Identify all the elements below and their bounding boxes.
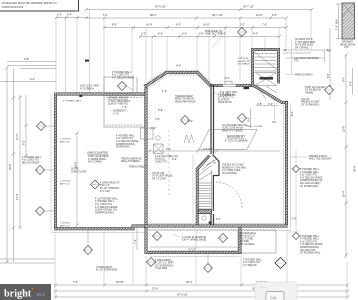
stoop strip walls	[146, 228, 240, 253]
svg-text:7'-2": 7'-2"	[133, 239, 137, 244]
svg-text:VENT SECTION: VENT SECTION	[205, 34, 222, 36]
svg-text:1'-4": 1'-4"	[162, 89, 167, 93]
areaway bump top-right	[238, 50, 279, 102]
svg-text:34'-6": 34'-6"	[74, 161, 78, 168]
svg-text:8' POURED WALL: 8' POURED WALL	[300, 235, 320, 238]
svg-text:28'-7 1/2": 28'-7 1/2"	[212, 13, 223, 17]
exterior wall right	[285, 102, 288, 228]
svg-text:6'-2": 6'-2"	[22, 140, 26, 145]
left wing dimension lines	[0, 57, 56, 82]
svg-text:TO U/S DECK: TO U/S DECK	[240, 244, 255, 246]
bottom-right watermark box	[255, 282, 297, 300]
svg-text:ANTI CLK: ANTI CLK	[60, 140, 70, 143]
svg-text:4'x1' CONC FTG: 4'x1' CONC FTG	[112, 75, 129, 77]
svg-text:3'x1' CONC FTG: 3'x1' CONC FTG	[300, 175, 317, 177]
svg-text:+ --: + --	[261, 285, 266, 289]
svg-text:4' POURED WALL: 4' POURED WALL	[300, 238, 320, 241]
svg-text:CONC SLAB W/ 6x6: CONC SLAB W/ 6x6	[222, 127, 244, 130]
svg-text:32'-8": 32'-8"	[8, 163, 12, 170]
svg-text:W/ 1/2" EXPANSION: W/ 1/2" EXPANSION	[96, 269, 118, 272]
crawl space vent bump	[104, 77, 133, 94]
svg-text:4' POURED WALL: 4' POURED WALL	[95, 200, 115, 203]
svg-text:1'-6" MIN: 1'-6" MIN	[335, 19, 339, 30]
crawl space room	[104, 96, 145, 128]
svg-text:58'-4": 58'-4"	[150, 13, 157, 17]
left bars note	[96, 266, 118, 272]
svg-text:7'-6 3/4": 7'-6 3/4"	[203, 147, 213, 151]
svg-text:2-0: 2-0	[272, 120, 276, 124]
svg-text:7'-9": 7'-9"	[73, 280, 78, 284]
svg-text:87'-9 1/2": 87'-9 1/2"	[177, 292, 188, 296]
svg-text:BELOW GRADE: BELOW GRADE	[22, 161, 40, 164]
svg-text:3'-6": 3'-6"	[216, 217, 221, 221]
top extension lines	[56, 10, 311, 94]
stair treads	[198, 159, 218, 211]
stair text	[213, 163, 246, 175]
svg-text:2'-0": 2'-0"	[292, 217, 297, 221]
svg-text:FTG: FTG	[294, 61, 299, 63]
post block	[209, 222, 212, 225]
svg-text:12'-4": 12'-4"	[15, 193, 19, 200]
svg-text:4' POURED WALL: 4' POURED WALL	[22, 156, 42, 159]
svg-text:10 A POURED 3000 PSI: 10 A POURED 3000 PSI	[222, 124, 247, 127]
svg-text:FTG 1'-8": FTG 1'-8"	[100, 185, 110, 187]
svg-text:10'-2": 10'-2"	[15, 133, 19, 140]
svg-text:AT SCREEN: AT SCREEN	[80, 87, 94, 90]
svg-text:2' CONC SLAB ABOVE: 2' CONC SLAB ABOVE	[182, 236, 207, 239]
svg-text:3'-0" LAP: 3'-0" LAP	[100, 190, 110, 193]
svg-text:bright: bright	[4, 288, 32, 299]
exterior wall left	[54, 93, 57, 231]
svg-text:TO 4% BELOW: TO 4% BELOW	[305, 90, 322, 92]
svg-text:TREATED BEAM: TREATED BEAM	[175, 95, 193, 98]
diamond leaders	[45, 86, 209, 264]
svg-text:GRADE: GRADE	[305, 91, 314, 94]
svg-text:6'-5": 6'-5"	[272, 13, 277, 17]
svg-text:CLEAN GRAVEL FILL: CLEAN GRAVEL FILL	[95, 209, 118, 212]
svg-text:NOTED AND MUST BE VERIFIED: NOTED AND MUST BE VERIFIED PRIOR TO	[2, 1, 57, 5]
svg-text:W/ 1/2" STRMONT: W/ 1/2" STRMONT	[100, 188, 120, 190]
svg-text:7'-0": 7'-0"	[262, 22, 267, 26]
exterior wall bottom-left	[54, 226, 147, 229]
svg-text:STMT FILL: STMT FILL	[238, 58, 250, 60]
svg-text:8' POURED WALL: 8' POURED WALL	[300, 168, 320, 171]
svg-text:9'-8": 9'-8"	[24, 57, 29, 61]
window opening top wall	[220, 76, 249, 97]
strip slab note	[173, 234, 207, 242]
svg-text:2'-2": 2'-2"	[141, 31, 146, 35]
text treated beam	[175, 95, 196, 104]
svg-text:3/4" GRAVEL: 3/4" GRAVEL	[295, 46, 310, 49]
svg-text:4'-0": 4'-0"	[155, 117, 160, 121]
svg-text:2'-0": 2'-0"	[57, 12, 62, 16]
bottom notes	[155, 258, 263, 270]
top dimension lines	[56, 4, 311, 36]
svg-text:CONC FTG: CONC FTG	[155, 161, 167, 163]
under stair dashed arc	[216, 182, 242, 208]
svg-text:3'-2": 3'-2"	[240, 22, 245, 26]
svg-text:20'-4": 20'-4"	[342, 190, 346, 197]
svg-text:MLS: MLS	[37, 292, 46, 297]
svg-text:6'-0": 6'-0"	[176, 22, 181, 26]
svg-text:8'-0": 8'-0"	[342, 77, 346, 82]
svg-text:3'-6" WIDE STAIR: 3'-6" WIDE STAIR	[222, 169, 241, 172]
bay window wall	[145, 73, 253, 88]
svg-text:1/2" GYP BD: 1/2" GYP BD	[240, 238, 254, 240]
svg-text:4' POURED WALL: 4' POURED WALL	[116, 134, 136, 137]
svg-text:9'-0": 9'-0"	[247, 117, 251, 122]
svg-text:4" SOIL TREATMENT: 4" SOIL TREATMENT	[108, 100, 131, 103]
svg-text:4" PVC PERF PIPE: 4" PVC PERF PIPE	[295, 42, 316, 44]
svg-text:4' 1/2 POURED WALL: 4' 1/2 POURED WALL	[95, 197, 119, 200]
svg-text:R-13 BATT: R-13 BATT	[218, 98, 230, 101]
text 2x4 wall	[214, 91, 235, 104]
chamfer wall top-right	[251, 84, 288, 103]
footing lines	[51, 94, 291, 285]
svg-text:4' BARS REQ'D AT: 4' BARS REQ'D AT	[100, 181, 120, 184]
svg-text:3'-0": 3'-0"	[268, 102, 273, 106]
svg-text:30'-3": 30'-3"	[186, 280, 193, 284]
svg-text:DAMPPROOFING: DAMPPROOFING	[116, 143, 135, 146]
svg-text:4'-0" BELOW GRADE: 4'-0" BELOW GRADE	[112, 76, 135, 79]
svg-text:DAMPPROOFING: DAMPPROOFING	[300, 246, 319, 249]
diamond inner marks	[37, 32, 332, 268]
svg-text:3'x1' CONC FTG: 3'x1' CONC FTG	[300, 241, 317, 243]
svg-text:7'-4": 7'-4"	[122, 105, 127, 109]
svg-text:AT 10" O.C. VERT: AT 10" O.C. VERT	[155, 262, 174, 265]
svg-text:JT EA SIDE: JT EA SIDE	[155, 267, 168, 270]
svg-text:AREAWAY: AREAWAY	[342, 41, 354, 44]
svg-text:INSULATION: INSULATION	[218, 101, 232, 104]
svg-text:4" CONC SLAB/MESH: 4" CONC SLAB/MESH	[225, 140, 249, 143]
stair left wall	[196, 168, 199, 225]
svg-text:15'-10": 15'-10"	[116, 280, 124, 284]
text block left margin	[22, 156, 42, 165]
bright MLS logo	[0, 284, 51, 300]
svg-text:PREMOLD JOINT: PREMOLD JOINT	[301, 102, 320, 104]
text poured slab	[222, 124, 247, 133]
beam line	[149, 150, 280, 152]
left vertical dimension lines	[0, 67, 55, 264]
top-right detail	[335, 3, 357, 49]
svg-text:W/ FILTER SOCK: W/ FILTER SOCK	[295, 45, 314, 47]
svg-text:6'-2": 6'-2"	[172, 157, 177, 161]
svg-text:TRENCH REQ'T: TRENCH REQ'T	[129, 166, 147, 168]
svg-text:WALL TILE SEALANT: WALL TILE SEALANT	[309, 158, 332, 161]
svg-text:4'-0" BELOW GRADE: 4'-0" BELOW GRADE	[300, 176, 323, 179]
basement label parallelogram	[199, 130, 257, 150]
svg-text:DRAIN DETAIL: DRAIN DETAIL	[340, 43, 356, 46]
svg-text:NO BARS PVT'D: NO BARS PVT'D	[295, 38, 313, 41]
text block poured wall mid-left	[116, 134, 139, 148]
svg-text:SLOPE: SLOPE	[71, 169, 79, 171]
svg-text:CONC FLOOR: CONC FLOOR	[71, 171, 87, 173]
svg-text:RISE SHEET (R): RISE SHEET (R)	[205, 31, 223, 33]
svg-text:4' POURED WALL: 4' POURED WALL	[63, 100, 82, 103]
chamfer drop line	[274, 103, 276, 120]
svg-text:TREADS AT 10" MIN: TREADS AT 10" MIN	[222, 164, 244, 167]
svg-text:4' POURED WALL: 4' POURED WALL	[112, 71, 132, 74]
svg-text:8'-0": 8'-0"	[188, 119, 193, 123]
svg-text:DAMPPROOFING W/: DAMPPROOFING W/	[300, 179, 323, 182]
svg-text:PREMOLD SPLIT: PREMOLD SPLIT	[309, 156, 328, 158]
footing pad at wall end	[141, 128, 154, 139]
text column footing	[155, 155, 179, 164]
svg-text:3'x1' CONC FTG: 3'x1' CONC FTG	[116, 138, 133, 140]
svg-text:REQD PER MANUF: REQD PER MANUF	[175, 100, 196, 103]
svg-text:CAL: CAL	[270, 296, 277, 300]
svg-text:4'-6": 4'-6"	[349, 81, 353, 86]
svg-text:(ON 4" GRAVEL BASE): (ON 4" GRAVEL BASE)	[182, 239, 206, 242]
svg-text:8'-0": 8'-0"	[326, 73, 330, 78]
bottom dimension lines	[54, 231, 349, 299]
svg-text:OF PLUMB WALL: OF PLUMB WALL	[300, 185, 319, 188]
svg-text:2'x1' CONC STRINGER: 2'x1' CONC STRINGER	[294, 58, 319, 60]
svg-text:2x4 @ 16 O.C.: 2x4 @ 16 O.C.	[240, 236, 256, 238]
svg-text:LOCKER WALL: LOCKER WALL	[240, 232, 257, 235]
steel column symbol	[154, 136, 164, 154]
svg-text:6'-2": 6'-2"	[30, 77, 35, 81]
svg-text:EA SIDE: EA SIDE	[240, 240, 249, 243]
svg-text:6'-0": 6'-0"	[182, 31, 187, 35]
svg-text:5'-8": 5'-8"	[158, 108, 163, 112]
svg-text:36'-4": 36'-4"	[353, 165, 357, 172]
svg-text:2'-0": 2'-0"	[225, 76, 230, 80]
svg-text:W/ HANDRAIL: W/ HANDRAIL	[222, 172, 238, 175]
svg-text:ANTI CLK: ANTI CLK	[60, 224, 70, 227]
svg-text:WWM O 4" GRAVEL: WWM O 4" GRAVEL	[222, 129, 244, 132]
svg-text:34'-7 1/2": 34'-7 1/2"	[243, 4, 254, 8]
svg-text:LOG AT: LOG AT	[301, 98, 310, 101]
svg-text:12'-6": 12'-6"	[342, 125, 346, 132]
svg-text:CONSTRUCTION.: CONSTRUCTION.	[2, 5, 25, 9]
svg-text:4'-0" BELOW GRADE: 4'-0" BELOW GRADE	[300, 243, 323, 246]
svg-text:9'-0": 9'-0"	[166, 147, 171, 151]
svg-text:2x4 @ 16" O.C.: 2x4 @ 16" O.C.	[218, 97, 234, 99]
svg-text:8'-0": 8'-0"	[290, 111, 294, 116]
svg-text:LIN OF GIR: LIN OF GIR	[152, 173, 164, 175]
svg-text:STEEL COLUMN: STEEL COLUMN	[246, 126, 263, 128]
svg-text:16'-8": 16'-8"	[203, 22, 210, 26]
svg-text:BASEMENT: BASEMENT	[227, 134, 245, 138]
svg-text:STMT FILL AS REQ: STMT FILL AS REQ	[305, 86, 326, 89]
svg-text:9'-6": 9'-6"	[158, 31, 163, 35]
svg-text:4" PERIM DRAIN: 4" PERIM DRAIN	[88, 158, 106, 161]
unexcavated corner note block	[100, 181, 120, 192]
svg-text:1 1/2 ROD: 1 1/2 ROD	[60, 223, 71, 225]
bay outer footing line	[143, 70, 213, 85]
small dark tick label	[85, 60, 89, 62]
svg-text:4'-0" BELOW GRADE: 4'-0" BELOW GRADE	[116, 140, 139, 143]
bay inner face line	[149, 75, 209, 89]
svg-text:4'-0" BELOW GRADE: 4'-0" BELOW GRADE	[95, 206, 118, 209]
svg-text:4'-4": 4'-4"	[199, 31, 204, 35]
svg-text:UP: UP	[213, 163, 217, 165]
svg-text:SILL AND AS REQT: SILL AND AS REQT	[300, 182, 321, 185]
svg-text:W/ FL DRAIN: W/ FL DRAIN	[88, 161, 102, 164]
svg-text:ANTI CLK: ANTI CLK	[60, 182, 70, 185]
diamonds	[36, 28, 334, 273]
svg-text:NTS: NTS	[344, 47, 349, 49]
svg-text:3'-4": 3'-4"	[151, 126, 156, 130]
svg-text:4'-0" BELOW: 4'-0" BELOW	[243, 265, 257, 267]
wall pier top-left	[79, 95, 82, 97]
svg-text:RISERS AT 7 3/4" MAX: RISERS AT 7 3/4" MAX	[222, 166, 246, 169]
top dimension ticks	[55, 8, 313, 38]
svg-text:16'-4": 16'-4"	[146, 22, 153, 26]
corridor wall	[210, 84, 212, 154]
note box top-left	[0, 0, 79, 11]
svg-text:2'-8": 2'-8"	[257, 102, 262, 106]
svg-text:14" FLOOR TRUSS: 14" FLOOR TRUSS	[152, 176, 173, 178]
svg-text:30x30x12: 30x30x12	[155, 159, 166, 161]
stair winder wall right	[213, 155, 220, 212]
stair winder wall left	[197, 156, 209, 170]
svg-text:TRENCH BEAM NO: TRENCH BEAM NO	[121, 157, 142, 160]
floor drain	[202, 216, 206, 220]
svg-text:4' POURED WALL: 4' POURED WALL	[243, 258, 263, 261]
svg-text:5'-4": 5'-4"	[67, 12, 72, 16]
exterior wall top-left	[54, 93, 146, 96]
rod notes along left wall	[60, 139, 71, 228]
svg-text:4' POURED WALL: 4' POURED WALL	[300, 171, 320, 174]
svg-text:4'-0": 4'-0"	[176, 64, 181, 68]
svg-text:4'x1' CONC FTG: 4'x1' CONC FTG	[243, 262, 260, 264]
svg-text:AS REQ TO: AS REQ TO	[238, 60, 250, 63]
svg-text:5'-4": 5'-4"	[103, 13, 108, 17]
svg-text:SILL AND TOP: SILL AND TOP	[300, 249, 316, 252]
beam zigzag	[184, 135, 194, 143]
text rise sheet vent	[205, 31, 223, 48]
bottom wall inner face	[148, 222, 285, 224]
svg-text:1 1/2 ROD: 1 1/2 ROD	[60, 181, 71, 183]
svg-text:8'-9": 8'-9"	[112, 22, 117, 26]
svg-text:+1'-0": +1'-0"	[113, 114, 119, 116]
right vertical dimension lines	[283, 28, 357, 258]
text block 4' poured wall top	[112, 71, 135, 80]
small interior dims	[122, 89, 279, 251]
svg-text:CRAWL SPACE: CRAWL SPACE	[108, 96, 128, 100]
svg-text:4' BARS REQ'D: 4' BARS REQ'D	[155, 259, 172, 262]
svg-text:4% GRADE: 4% GRADE	[238, 63, 250, 66]
svg-text:FRENCH DRAIN: FRENCH DRAIN	[295, 73, 313, 76]
svg-text:3'x1' CONC FTG: 3'x1' CONC FTG	[95, 204, 112, 206]
svg-text:2'x 4X WALL w/: 2'x 4X WALL w/	[218, 93, 234, 96]
svg-text:UNEXCAVATED: UNEXCAVATED	[87, 150, 108, 154]
svg-text:1 1/2 ROD: 1 1/2 ROD	[60, 139, 71, 141]
stair bottom block	[198, 210, 212, 214]
svg-text:OR TJI JOIST: OR TJI JOIST	[152, 178, 167, 180]
svg-text:DAMPPROOFING: DAMPPROOFING	[95, 211, 114, 214]
svg-text:1/2" EXPANSION: 1/2" EXPANSION	[155, 264, 173, 267]
svg-text:CONC SLAB MESH: CONC SLAB MESH	[88, 155, 109, 158]
svg-text:PRES TOP BEAM: PRES TOP BEAM	[175, 98, 194, 101]
beam dashed line vertical	[168, 130, 170, 195]
right side notes	[286, 38, 332, 255]
svg-text:-- BASEMENT --: -- BASEMENT --	[111, 110, 128, 113]
stair bottom connector wall	[210, 214, 212, 225]
svg-text:4'x1' CONC FTG: 4'x1' CONC FTG	[22, 160, 39, 162]
svg-text:4' BARS REQ'D: 4' BARS REQ'D	[96, 266, 113, 269]
unexcavated vertical dim	[74, 132, 79, 227]
svg-text:57'-8": 57'-8"	[152, 286, 159, 290]
locker wall boxed note	[238, 230, 276, 253]
svg-text:16'-8": 16'-8"	[256, 13, 263, 17]
svg-text:OF POURED WALL: OF POURED WALL	[300, 252, 321, 255]
text labels main	[71, 84, 147, 173]
text line of girder	[152, 173, 173, 181]
strip inner face lines	[148, 228, 238, 230]
svg-text:W/ PARGING: W/ PARGING	[116, 146, 130, 149]
svg-text:87'-9 1/2": 87'-9 1/2"	[155, 4, 166, 8]
exterior wall bottom	[145, 225, 288, 228]
svg-text:37'-10": 37'-10"	[188, 247, 196, 251]
svg-text:1/2" EXPANSION: 1/2" EXPANSION	[301, 103, 319, 106]
svg-text:4'-0": 4'-0"	[253, 31, 258, 35]
interior wall x=146	[145, 84, 148, 253]
